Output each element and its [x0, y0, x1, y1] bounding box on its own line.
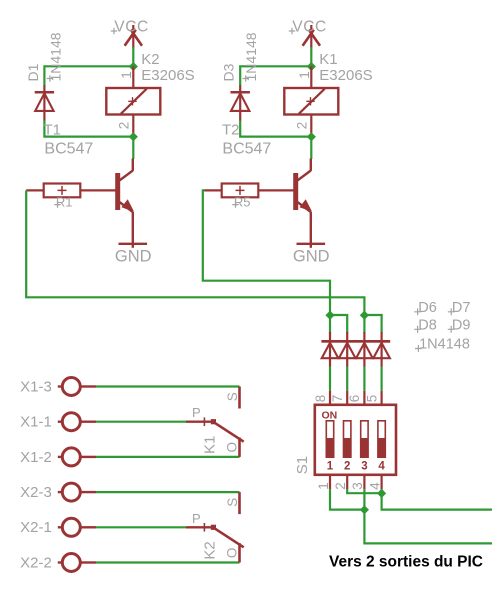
label D7 [448, 300, 471, 316]
S1 slider 2 [344, 421, 351, 457]
svg-text:3: 3 [361, 461, 367, 473]
svg-text:5: 5 [364, 395, 379, 403]
wire D8 anode to S1 [363, 367, 365, 391]
svg-text:X2-3: X2-3 [20, 484, 52, 501]
label D9 [448, 318, 471, 334]
svg-text:1N4148: 1N4148 [47, 32, 63, 81]
S1 pin 8 (top) [329, 391, 331, 405]
S1 pin 1 (bottom) [329, 475, 331, 490]
wire S contact net [96, 385, 240, 387]
svg-text:D8: D8 [418, 318, 437, 334]
S1 slider 1 [326, 421, 333, 457]
svg-text:P: P [192, 511, 201, 526]
connector pad X1-3 [58, 378, 96, 396]
diode D1 [35, 85, 54, 121]
supply VCC (net to K2) [125, 25, 142, 49]
wire branch column3 to column4 [364, 315, 381, 333]
relay coil K1 [284, 66, 338, 136]
svg-text:K2: K2 [201, 541, 218, 559]
S1 pin 5 (top) [381, 391, 383, 405]
svg-text:D1: D1 [25, 63, 41, 81]
junction node K1 pin2/collector [307, 132, 316, 141]
label R1 [54, 195, 72, 210]
svg-text:P: P [192, 405, 201, 420]
S1 pin 3 (bottom) [363, 475, 365, 490]
diode D8 [356, 332, 373, 367]
svg-text:K1: K1 [319, 51, 337, 68]
wire P pivot net [96, 421, 186, 423]
wire S1 pin1 to pin3 net [330, 489, 364, 509]
svg-text:D6: D6 [418, 300, 437, 316]
junction node at diode column 1 [325, 311, 334, 320]
supply VCC (net to K1) [303, 25, 320, 49]
wire pins1+3 to right edge (PIC output B) [364, 510, 492, 544]
wire D6 anode to S1 [329, 367, 331, 391]
svg-text:1: 1 [297, 71, 312, 79]
junction node VCC/K2 pin1 [129, 62, 138, 71]
svg-text:X1-2: X1-2 [20, 449, 52, 466]
junction node pins2+4 [377, 489, 386, 498]
svg-text:7: 7 [330, 395, 345, 403]
svg-text:VCC: VCC [292, 19, 327, 36]
value 1N4148 of D3 [243, 32, 260, 81]
svg-text:BC547: BC547 [222, 141, 271, 158]
svg-text:2: 2 [295, 122, 310, 130]
svg-text:E3206S: E3206S [319, 67, 372, 84]
junction node pins1+3 [360, 505, 369, 514]
svg-text:D3: D3 [221, 63, 237, 81]
svg-text:E3206S: E3206S [141, 67, 194, 84]
svg-text:ON: ON [322, 409, 338, 421]
svg-text:X1-3: X1-3 [20, 378, 52, 395]
svg-text:O: O [224, 548, 239, 559]
svg-text:3: 3 [350, 482, 365, 490]
wire D7 anode to S1 [346, 367, 348, 391]
svg-text:1N4148: 1N4148 [419, 336, 470, 352]
svg-text:Vers 2 sorties du PIC: Vers 2 sorties du PIC [329, 554, 483, 571]
wire S1 pin3 down [363, 489, 365, 509]
connector pad X1-2 [58, 448, 96, 466]
S1 pin 2 (bottom) [346, 475, 348, 490]
wire S1 pin4 down [381, 489, 383, 493]
svg-text:VCC: VCC [114, 19, 149, 36]
S1 pin 6 (top) [363, 391, 365, 405]
svg-text:2: 2 [344, 461, 350, 473]
wire D1 anode to node [44, 121, 133, 137]
svg-text:D7: D7 [452, 300, 471, 316]
svg-text:D9: D9 [452, 318, 471, 334]
label D6 [414, 300, 437, 316]
ground GND below T1 [115, 244, 152, 266]
connector pad X2-2 [58, 554, 96, 572]
svg-text:6: 6 [347, 395, 362, 403]
wire R5 base net to DIP columns (right route) [203, 190, 330, 315]
svg-text:2: 2 [333, 482, 348, 490]
value 1N4148 of D1 [47, 32, 64, 81]
transistor T1 BC547 [118, 159, 134, 248]
wire P pivot net [96, 526, 186, 528]
wire S contact net [96, 491, 240, 493]
wire R1 base net to DIP columns (left route) [26, 190, 364, 315]
junction node K2 pin2/collector [129, 132, 138, 141]
relay contact switch K2 [186, 492, 244, 562]
junction node VCC/K1 pin1 [307, 62, 316, 71]
svg-text:R5: R5 [234, 195, 251, 210]
diode D3 [231, 85, 250, 121]
dip switch S1 body [315, 405, 396, 475]
S1 pin 7 (top) [346, 391, 348, 405]
wire VCC to node [132, 47, 134, 66]
svg-text:1N4148: 1N4148 [243, 32, 259, 81]
svg-text:GND: GND [115, 248, 152, 266]
wire S1 pin2 to pin4 net [347, 489, 381, 493]
S1 slider 4 [378, 421, 385, 457]
resistor R1 [26, 184, 118, 198]
relay coil K2 [106, 66, 160, 136]
svg-text:8: 8 [313, 395, 328, 403]
svg-text:K2: K2 [141, 51, 159, 68]
svg-text:4: 4 [367, 482, 382, 490]
label VCC [289, 19, 327, 36]
wire O contact net [96, 456, 240, 458]
svg-text:BC547: BC547 [44, 141, 93, 158]
connector pad X1-1 [58, 413, 96, 431]
connector pad X2-1 [58, 518, 96, 536]
svg-text:S: S [225, 392, 240, 401]
diode D6 [322, 332, 339, 367]
diode D7 [339, 332, 356, 367]
label D8 [414, 318, 437, 334]
connector pad X2-3 [58, 483, 96, 501]
wire VCC to node [310, 47, 312, 66]
S1 slider 3 [361, 421, 368, 457]
S1 pin 4 (bottom) [381, 475, 383, 490]
label VCC [111, 19, 149, 36]
svg-text:K1: K1 [201, 436, 218, 454]
relay contact switch K1 [186, 387, 244, 457]
value 1N4148 of D6-D9 [415, 336, 470, 352]
wire D3 anode to node [240, 121, 311, 137]
svg-text:S: S [225, 498, 240, 507]
svg-text:O: O [224, 442, 239, 453]
wire column3 down [363, 315, 365, 333]
wire diode D1 cathode to node [44, 66, 133, 85]
svg-text:4: 4 [378, 461, 385, 473]
svg-text:1: 1 [327, 461, 334, 473]
wire node to collector [310, 137, 312, 159]
svg-text:X1-1: X1-1 [20, 414, 52, 431]
wire O contact net [96, 561, 240, 563]
wire node to collector [132, 137, 134, 159]
svg-text:R1: R1 [56, 195, 73, 210]
svg-text:1: 1 [316, 482, 331, 490]
svg-text:S1: S1 [294, 456, 311, 474]
ground GND below T2 [293, 244, 330, 266]
wire D9 anode to S1 [381, 367, 383, 391]
diode D9 [373, 332, 390, 367]
svg-text:2: 2 [117, 122, 132, 130]
svg-text:T2: T2 [222, 122, 240, 139]
svg-text:1: 1 [119, 71, 134, 79]
wire diode D3 cathode to node [240, 66, 311, 85]
svg-text:X2-2: X2-2 [20, 554, 52, 571]
wire pins2+4 to right edge (PIC output A) [382, 493, 492, 509]
junction node at diode column 3 [360, 311, 369, 320]
wire branch column1 to column2 [330, 315, 347, 333]
label R5 [232, 195, 250, 210]
diodes D6 D7 D8 D9 cathode bar [321, 340, 390, 343]
svg-text:X2-1: X2-1 [20, 519, 52, 536]
svg-text:T1: T1 [44, 122, 62, 139]
resistor R5 [204, 184, 296, 198]
svg-text:GND: GND [293, 248, 330, 266]
transistor T2 BC547 [296, 159, 312, 248]
wire column1 down [329, 315, 331, 333]
